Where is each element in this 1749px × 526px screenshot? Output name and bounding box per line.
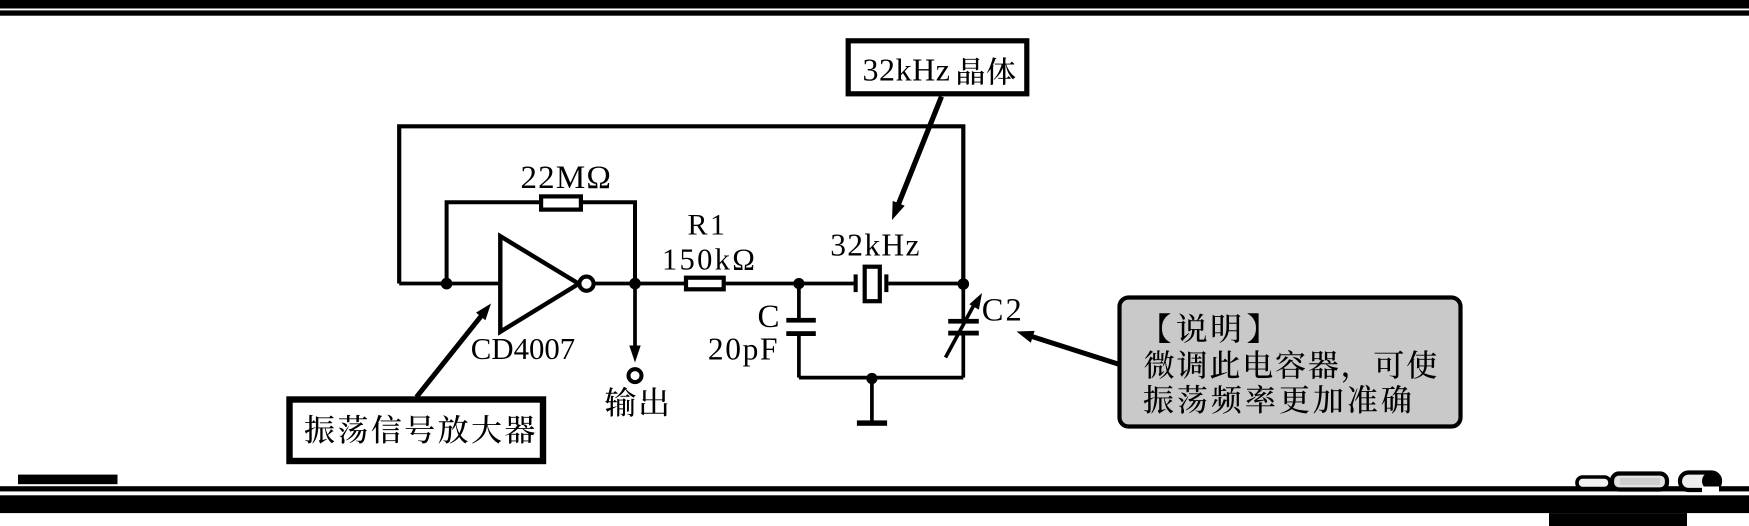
capacitor C (20pF): top lead	[797, 284, 801, 319]
node: junction dot at top of C2	[958, 278, 970, 290]
inversion bubble at inverter output	[579, 277, 593, 291]
C2 bottom lead	[961, 336, 965, 378]
note line 2: wei tiao ci dian rong qi, ke shi	[1145, 350, 1437, 383]
node: junction dot above capacitor C	[793, 278, 804, 289]
callout note box (gray, rounded)	[1120, 298, 1461, 427]
svg-text:CD4007: CD4007	[471, 332, 575, 366]
bottom-right black block	[1549, 513, 1687, 526]
page-curl icon 3 (hook capsule)	[1680, 473, 1720, 491]
page-curl icon 1 (small capsule)	[1577, 477, 1610, 489]
wire: output stub with arrow to output terminal	[633, 284, 637, 347]
label: output (shu chu)	[605, 387, 667, 417]
arrow from note box to C2	[1028, 335, 1118, 364]
svg-text:20pF: 20pF	[708, 332, 779, 367]
wire: outer feedback loop (left vertical, top run, right vertical)	[399, 126, 963, 283]
svg-text:150kΩ: 150kΩ	[662, 243, 757, 277]
crystal body rectangle	[865, 267, 880, 302]
resistor 22M ohm (body)	[541, 196, 581, 209]
capacitor C bottom lead	[797, 336, 801, 378]
callout box: oscillation signal amplifier	[290, 400, 544, 462]
bottom-left small black tab	[18, 475, 118, 485]
ground bar symbol	[857, 420, 887, 425]
top border bar (outer)	[0, 0, 1749, 9]
top border bar (inner rule)	[0, 10, 1749, 15]
page-curl icon 2 (large capsule)	[1612, 474, 1667, 490]
ground stub	[870, 379, 874, 421]
node: output junction dot	[629, 278, 641, 290]
svg-text:C2: C2	[982, 293, 1024, 329]
callout box: 32kHz crystal label	[848, 41, 1027, 94]
C2 plates	[948, 319, 979, 324]
svg-text:C: C	[757, 299, 779, 335]
crystal right plate	[884, 274, 888, 292]
arrow from amplifier box to inverter	[417, 315, 483, 397]
note line 3: zhen dang pin lv geng jia zhun que	[1144, 385, 1411, 414]
svg-text:R1: R1	[688, 209, 728, 242]
svg-text:32kHz: 32kHz	[830, 227, 920, 262]
C2 variable arrow (diagonal)	[946, 305, 975, 358]
wire: R1 to crystal	[726, 282, 854, 286]
note line 1: [shuo ming]	[1159, 313, 1258, 343]
capacitor C plates	[786, 318, 816, 323]
wire: inverter output to R1	[594, 282, 684, 286]
output terminal circle	[629, 369, 642, 382]
wire: crystal to right vertical net	[888, 282, 963, 286]
node: junction dot at inverter input	[441, 278, 453, 290]
node: junction dot at ground tap	[866, 373, 877, 384]
arrow from 32kHz box to crystal	[898, 97, 942, 207]
svg-text:22MΩ: 22MΩ	[520, 160, 612, 196]
wire: feedback branch through 22M ohm resistor	[447, 202, 635, 283]
bottom thin rule	[0, 486, 1749, 491]
op-amp / inverter U1 triangle (CD4007 gate)	[500, 236, 579, 332]
wire: input net from outer loop to inverter input	[399, 282, 500, 286]
callout text crystal (jing ti)	[958, 57, 1015, 85]
bottom thick bar	[0, 495, 1749, 513]
arrowhead on output stub	[629, 346, 640, 363]
crystal Y1 32kHz: left plate	[854, 274, 858, 292]
callout text: zhen dang xin hao fang da qi	[305, 415, 535, 444]
resistor R1 (body)	[686, 278, 724, 290]
variable capacitor C2: top lead	[961, 284, 965, 319]
svg-text:32kHz: 32kHz	[863, 52, 951, 88]
wire: bottom run from C to C2	[799, 376, 963, 380]
